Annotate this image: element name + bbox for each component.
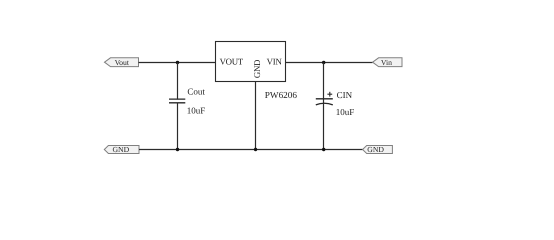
capacitor Cout	[169, 99, 185, 103]
port Vin	[373, 58, 402, 67]
label Cout	[187, 86, 205, 96]
svg-text:GND: GND	[252, 60, 262, 78]
wire node B to Vin port	[324, 62, 373, 64]
regulator U1 body	[216, 42, 286, 82]
value 10uF (CIN)	[336, 107, 355, 117]
junction U1 GND at rail	[254, 148, 257, 151]
svg-text:GND: GND	[367, 145, 384, 154]
wire U1 GND pin down to bottom rail	[255, 82, 257, 150]
label CIN	[337, 90, 353, 100]
svg-text:VIN: VIN	[267, 57, 283, 67]
wire node A to U1 VOUT pin	[178, 62, 217, 64]
node A junction	[176, 61, 179, 64]
value 10uF (Cout)	[187, 105, 206, 115]
wire U1 VIN pin to node B	[286, 62, 325, 64]
svg-text:Vout: Vout	[115, 58, 130, 67]
part name PW6206	[265, 90, 298, 100]
junction Cout at GND rail	[176, 148, 179, 151]
wire Vout to node A	[139, 62, 178, 64]
svg-text:VOUT: VOUT	[220, 57, 244, 67]
pin label VOUT	[220, 57, 244, 67]
svg-text:10uF: 10uF	[187, 105, 206, 115]
svg-text:10uF: 10uF	[336, 107, 355, 117]
wire node B down through CIN top plate	[323, 63, 325, 105]
wire bottom GND rail	[139, 149, 363, 151]
svg-text:GND: GND	[112, 145, 129, 154]
port GND left	[104, 145, 139, 154]
junction CIN at GND rail	[322, 148, 325, 151]
svg-text:CIN: CIN	[337, 90, 353, 100]
node B junction	[322, 61, 325, 64]
wire Cout to bottom GND rail	[177, 103, 179, 150]
svg-text:Vin: Vin	[381, 58, 392, 67]
svg-text:Cout: Cout	[187, 86, 205, 96]
pin label VIN	[267, 57, 283, 67]
port GND right	[363, 145, 393, 154]
svg-text:PW6206: PW6206	[265, 90, 298, 100]
wire node A down to Cout	[177, 63, 179, 100]
wire CIN to bottom GND rail	[323, 104, 325, 150]
pin label GND (rotated)	[252, 60, 262, 78]
capacitor CIN polarized	[316, 92, 333, 105]
port Vout	[105, 58, 139, 67]
